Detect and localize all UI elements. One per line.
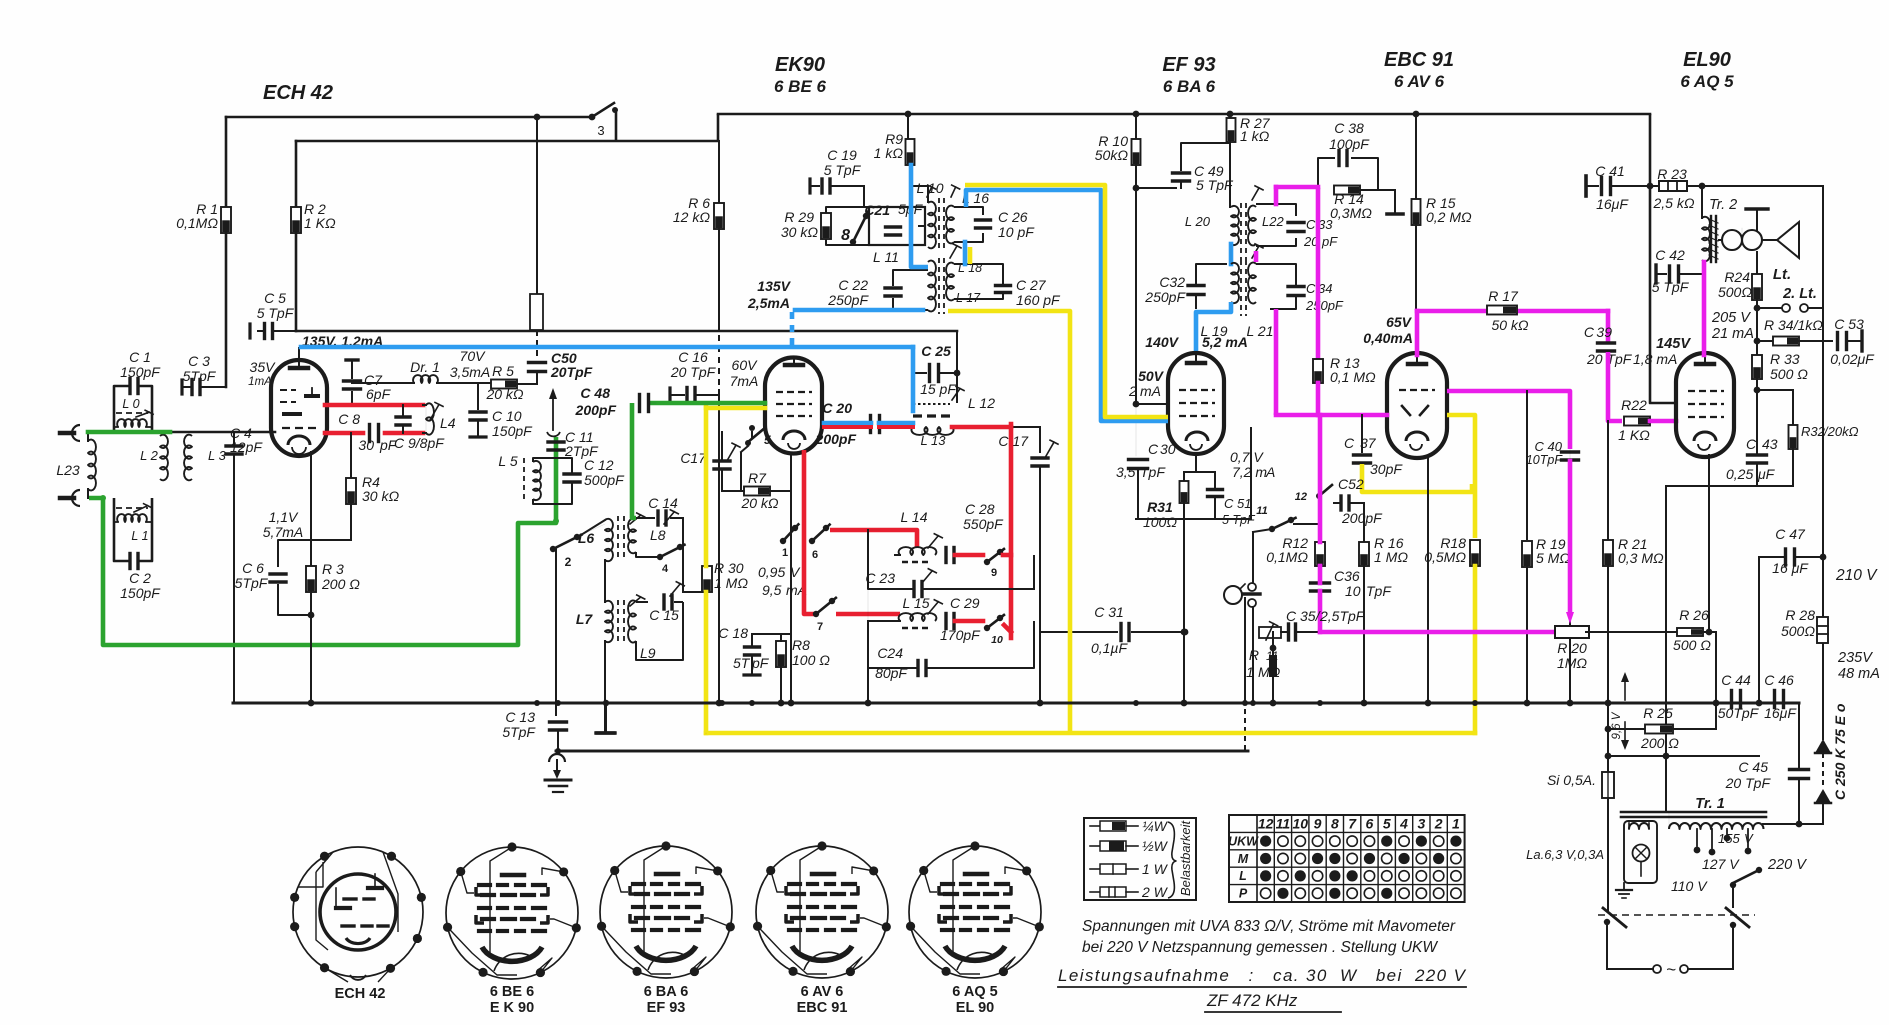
wire 0,7V line right (1250, 428, 1252, 519)
svg-text:20TpF: 20TpF (550, 364, 593, 380)
node junction at R9 branch (905, 111, 912, 118)
blue wire L16 to EF93 top path (966, 190, 1168, 421)
svg-text:L 1: L 1 (131, 529, 148, 543)
resistor R21 (1603, 540, 1613, 566)
wire C25 right vertical (956, 331, 958, 402)
dashed link to lower rail (1244, 709, 1246, 751)
svg-text:20 TpF: 20 TpF (670, 364, 717, 380)
svg-text:La.6,3 V,0,3A: La.6,3 V,0,3A (1526, 847, 1604, 862)
svg-text:L 12: L 12 (968, 395, 995, 411)
svg-text:0,40mA: 0,40mA (1363, 330, 1413, 346)
svg-text:C 40: C 40 (1535, 439, 1563, 454)
svg-text:R7: R7 (748, 470, 767, 486)
yellow wire R18 to bottom bus (1473, 566, 1478, 733)
wire C19 corner to box top (863, 186, 865, 207)
yellow wire L16/C26 to EF93 grid (968, 247, 973, 264)
svg-text:R: R (1249, 647, 1259, 663)
wire L14/L15 black bus stub (867, 530, 869, 555)
wire rail-to-fuse vertical (1605, 700, 1612, 707)
yellow wire EBC91 grid side to R18 (1447, 415, 1475, 538)
svg-text:Spannungen mit UVA 833 Ω/V: Spannungen mit UVA 833 Ω/V‚ Ströme mit M… (1082, 918, 1456, 935)
svg-text:200pF: 200pF (575, 402, 617, 418)
red wire C29 to switch10 (955, 619, 983, 624)
red wire C28 to switch9 (955, 553, 983, 558)
svg-text:6 AQ 5: 6 AQ 5 (1680, 72, 1734, 91)
svg-text:C 18: C 18 (718, 625, 748, 641)
svg-text:150pF: 150pF (492, 423, 533, 439)
socket diagram ECH42 (293, 847, 423, 977)
svg-text:150pF: 150pF (120, 364, 161, 380)
svg-text:9: 9 (1314, 816, 1322, 832)
svg-text:EF 93: EF 93 (1162, 54, 1215, 76)
resistor R8 (776, 641, 786, 667)
resistor R17 (1487, 306, 1517, 315)
wire C47 branch to rail (1758, 557, 1760, 703)
svg-text:R 28: R 28 (1785, 607, 1815, 623)
svg-text:C: C (1584, 324, 1595, 340)
svg-text:500 Ω: 500 Ω (1770, 366, 1808, 382)
svg-text:500pF: 500pF (584, 472, 625, 488)
svg-text:R 29: R 29 (784, 209, 814, 225)
svg-text:Tr. 2: Tr. 2 (1709, 197, 1737, 213)
svg-text:1 W: 1 W (1142, 861, 1169, 877)
wire R2 vertical from lower rail (295, 141, 298, 207)
resistor R16 (1359, 542, 1369, 566)
svg-text:12 kΩ: 12 kΩ (673, 209, 710, 225)
svg-text:ECH 42: ECH 42 (263, 82, 333, 104)
svg-text:C 48: C 48 (580, 385, 610, 401)
wire EF93 branch from rail (1135, 114, 1137, 140)
wire C8 node vertical (350, 433, 352, 443)
red wire cathode loop down (802, 450, 807, 530)
svg-text:R 23: R 23 (1657, 166, 1687, 182)
svg-text:L 5: L 5 (498, 453, 517, 469)
wire ground rail repaint (233, 702, 1799, 705)
red wire switch9 to red vertical (1003, 553, 1011, 558)
fuse Si 0,5A (1602, 772, 1614, 798)
red wire right vertical (1009, 424, 1014, 638)
wire red area bus to ground (867, 555, 869, 621)
svg-text:C 14: C 14 (648, 495, 678, 511)
svg-text:R 34/1kΩ: R 34/1kΩ (1764, 317, 1823, 333)
green wire antenna top (88, 430, 170, 435)
svg-text:bei 220 V Netzspannung geme: bei 220 V Netzspannung gemessen . Stellu… (1082, 939, 1438, 956)
wire R9 from rail (907, 114, 909, 140)
svg-text:1: 1 (1246, 664, 1254, 680)
wire top-right corner down to EL90 grid2 (1650, 114, 1676, 403)
red wire switch10 to vertical (1004, 625, 1011, 632)
wire Tr.1 winding ends (1668, 812, 1670, 829)
svg-text:C 26: C 26 (998, 209, 1028, 225)
capacitor C39 (1598, 341, 1615, 344)
tube EBC91 internals (1408, 362, 1426, 367)
wire corner to main top rail (717, 114, 720, 141)
tank L5/C12 wiring (533, 458, 572, 474)
svg-text:16 μF: 16 μF (1772, 560, 1809, 576)
svg-text:R32: R32 (1801, 424, 1826, 439)
svg-text:ECH 42: ECH 42 (335, 986, 386, 1002)
wire R16 branch (1363, 503, 1365, 543)
wire R26 corner to rail/R25 (1715, 632, 1717, 729)
box C21 with 5pF (869, 207, 925, 245)
blue wire 135V long line (301, 345, 913, 350)
svg-text:160 pF: 160 pF (1016, 292, 1061, 308)
svg-text:16μF: 16μF (1596, 196, 1629, 212)
svg-text:4: 4 (1399, 816, 1408, 832)
resistor R27 from rail (1227, 111, 1234, 118)
svg-text:9: 9 (991, 567, 997, 579)
red wire ECH42 cathode line via C8 (325, 431, 363, 436)
svg-text:1: 1 (782, 547, 788, 559)
svg-text:3: 3 (597, 123, 604, 138)
svg-text:5: 5 (1383, 816, 1391, 832)
socket diagram 6BE6 (446, 847, 578, 979)
svg-text:C 15: C 15 (649, 607, 679, 623)
magenta tank link L22-L21 (1254, 251, 1259, 262)
wire C17 to ground rail (1039, 468, 1041, 703)
svg-text:C52: C52 (1338, 476, 1364, 492)
svg-text:10: 10 (991, 634, 1003, 646)
wire L23 to green node (87, 433, 89, 441)
wire screen line to tube (1136, 403, 1168, 405)
resistor R5 (491, 380, 517, 389)
tank L0-C1 wiring (114, 386, 130, 432)
resistor R11 (1270, 645, 1277, 652)
switch 6 (809, 538, 815, 544)
svg-text:37: 37 (1360, 435, 1377, 451)
svg-text:μF: μF (1757, 466, 1776, 482)
svg-text:5,7mA: 5,7mA (263, 524, 303, 540)
svg-text:35V: 35V (250, 359, 277, 375)
blue wire down to EK90 anode line (911, 347, 916, 411)
capacitor C36 (1311, 581, 1330, 584)
svg-text:200 Ω: 200 Ω (1640, 735, 1679, 751)
wire lower rail repaint (556, 750, 1248, 753)
svg-text:50V: 50V (1138, 368, 1165, 384)
svg-text:L 10: L 10 (917, 180, 944, 196)
resistor R2 (291, 207, 301, 233)
wire L21/C34 tank lines (1256, 264, 1296, 287)
svg-text:½W: ½W (1142, 838, 1169, 854)
svg-text:L7: L7 (576, 611, 594, 627)
wire lower top rail (R2 across to corner x718) (296, 140, 718, 143)
wire R21 to ground rail (1607, 566, 1609, 703)
svg-text:C 9/8pF: C 9/8pF (394, 435, 445, 451)
magenta wire R13 vertical (1316, 190, 1321, 360)
svg-text:5,2 mA: 5,2 mA (1202, 334, 1248, 350)
svg-text:6 AQ 5: 6 AQ 5 (952, 984, 997, 1000)
node junction at R15 branch (1413, 111, 1420, 118)
legend box Belastbarkeit (1084, 818, 1196, 900)
svg-text:C: C (1306, 217, 1316, 232)
wire R4 to cathode node (350, 504, 352, 540)
magenta wire R22 to EL90 (1650, 419, 1676, 424)
tube EL90 envelope (1676, 353, 1734, 457)
wire L4/C9 joining (423, 404, 426, 406)
wire switch2 pole down to C13 (555, 549, 557, 715)
svg-text:1mA: 1mA (248, 376, 272, 388)
svg-text:150pF: 150pF (120, 585, 161, 601)
svg-text:4: 4 (662, 563, 669, 575)
svg-text:220 V: 220 V (1767, 857, 1807, 873)
resistor R29 (821, 213, 831, 239)
svg-text:/20kΩ: /20kΩ (1823, 424, 1859, 439)
svg-text:EL90: EL90 (1683, 49, 1731, 71)
wire lower rail (556, 750, 1248, 753)
capacitor C20 (869, 416, 872, 433)
switch 7 (813, 611, 819, 617)
magenta wire C39 to R22 line (1608, 352, 1622, 421)
yellow wire EK90 grid vertical (705, 733, 707, 734)
svg-text:1,8 mA: 1,8 mA (1633, 351, 1677, 367)
svg-text:L23: L23 (56, 462, 80, 478)
wire C13 to lower rail junction (557, 730, 559, 751)
svg-text:C 22: C 22 (838, 277, 868, 293)
green wire C48 to L8 (632, 403, 636, 518)
svg-text:C 17: C 17 (998, 433, 1029, 449)
svg-text:100pF: 100pF (1329, 136, 1370, 152)
svg-text:R22: R22 (1621, 397, 1647, 413)
wire 210V right vertical (1822, 186, 1824, 308)
svg-text:210 V: 210 V (1835, 567, 1878, 584)
resistor R31 and C51 cathode network (1195, 455, 1197, 472)
coil L1 with arrow (116, 507, 148, 509)
svg-text:6 BE 6: 6 BE 6 (490, 984, 534, 1000)
wire cathode to ground rail (1183, 519, 1185, 703)
wire switch5 loop to R7 (751, 431, 753, 438)
legend brace (1168, 822, 1176, 898)
red wire EK90 cathode along anode line (824, 425, 871, 429)
svg-text:C 35/: C 35/ (1286, 608, 1322, 624)
capacitor C37 (1361, 415, 1363, 452)
svg-text:0,1MΩ: 0,1MΩ (176, 215, 218, 231)
svg-text:L9: L9 (640, 645, 656, 661)
svg-text:ZF 472 KHz: ZF 472 KHz (1206, 991, 1298, 1010)
wire tube top to blue node (298, 348, 300, 360)
svg-text:3,5: 3,5 (1116, 464, 1136, 480)
svg-text:C17: C17 (680, 450, 707, 466)
svg-text:L4: L4 (440, 415, 456, 431)
svg-text:C 5: C 5 (264, 290, 286, 306)
capacitor C14 (636, 517, 654, 519)
node junction at switch 3 left contact (589, 114, 596, 121)
svg-text:L 14: L 14 (901, 509, 928, 525)
wire R1 vertical from rail (225, 117, 228, 207)
shield box on C50 branch (530, 294, 543, 330)
tube EK90 envelope (765, 358, 822, 454)
wire antenna terminal 1 (60, 431, 74, 436)
svg-text:1 KΩ: 1 KΩ (1618, 427, 1650, 443)
svg-text:C 42: C 42 (1655, 247, 1685, 263)
coil L23 (88, 440, 96, 491)
table switch positions (1229, 815, 1465, 902)
switch 4 (657, 554, 663, 560)
capacitor C40 (1562, 450, 1579, 453)
wire switch link dashes (1598, 914, 1755, 916)
svg-text:~: ~ (1666, 960, 1676, 979)
blue wire through C21 box to L11 (911, 209, 928, 267)
coil L12 dotted with arrow (913, 403, 950, 405)
svg-text:1MΩ: 1MΩ (1557, 655, 1587, 671)
svg-text:L 3: L 3 (208, 448, 227, 463)
svg-text:9,5: 9,5 (762, 582, 782, 598)
capacitor C17 right variable (1032, 456, 1048, 459)
svg-text:6 BA 6: 6 BA 6 (644, 984, 689, 1000)
tube EF93 envelope (1168, 353, 1224, 454)
resistor R20 potentiometer (1555, 626, 1589, 638)
tube EF93 internals (1187, 361, 1205, 366)
diode selenium 2 (1822, 753, 1824, 788)
svg-text:3,5mA: 3,5mA (450, 364, 490, 380)
svg-text:50 kΩ: 50 kΩ (1491, 317, 1528, 333)
svg-text:1 MΩ: 1 MΩ (1374, 549, 1408, 565)
wire C4 vertical to ground rail (233, 432, 235, 445)
wire R32 branch (1757, 389, 1793, 391)
svg-text:10: 10 (1292, 816, 1308, 832)
capacitor C30 (1135, 404, 1137, 456)
svg-text:200 Ω: 200 Ω (321, 576, 360, 592)
wire R22 node down to R21 (1607, 421, 1609, 540)
lamp ground stub (1623, 883, 1625, 890)
svg-text:170pF: 170pF (940, 627, 981, 643)
svg-text:500Ω: 500Ω (1781, 623, 1815, 639)
svg-text:9,6 V: 9,6 V (1611, 711, 1623, 739)
resistor R9 (906, 139, 915, 165)
svg-text:6 BA 6: 6 BA 6 (1163, 77, 1216, 96)
svg-text:6pF: 6pF (366, 386, 392, 402)
svg-text:250pF: 250pF (1144, 289, 1186, 305)
wire grid line L0/L2 to tube (black part) (152, 431, 275, 434)
svg-text:¼W: ¼W (1142, 818, 1169, 834)
svg-text:C 8: C 8 (338, 411, 360, 427)
svg-text:EF 93: EF 93 (647, 1000, 686, 1016)
resistor R3 (306, 566, 316, 592)
svg-text:39: 39 (1596, 324, 1612, 340)
svg-text:C 16: C 16 (678, 349, 708, 365)
magenta wire R13 to grid line (1316, 383, 1321, 415)
svg-text:7mA: 7mA (730, 373, 759, 389)
resistor R6 (714, 203, 724, 229)
svg-text:pF: pF (1321, 234, 1338, 249)
resistor R15 branch (1415, 114, 1417, 200)
blue wire EK90 anode segment (824, 421, 871, 426)
resistor R14 (1334, 186, 1360, 195)
wire rail end to C45 and winding (1798, 703, 1800, 769)
yellow wire C37 to R18 vertical (1362, 464, 1472, 492)
switch 8 (850, 239, 856, 245)
svg-text:5 TpF: 5 TpF (1652, 279, 1690, 295)
svg-text:0,25: 0,25 (1726, 466, 1753, 482)
magenta wire AVC bus to R20 (1320, 630, 1557, 635)
socket diagram 6BA6 (600, 846, 732, 978)
svg-text:R24: R24 (1724, 269, 1750, 285)
svg-text:C 3: C 3 (188, 353, 210, 369)
wire EBC91 cathode down (1427, 456, 1429, 703)
svg-text:C 19: C 19 (827, 147, 857, 163)
tube EBC91 envelope (1387, 353, 1447, 458)
svg-text:EL 90: EL 90 (956, 1000, 994, 1016)
wire C23 loop (868, 555, 913, 589)
capacitor C7 (346, 358, 358, 361)
svg-text:L 0: L 0 (122, 397, 139, 411)
tank L1-C2 wiring (114, 498, 130, 561)
coil L19/L21 IF transformer (1231, 263, 1239, 303)
svg-text:10 pF: 10 pF (998, 224, 1035, 240)
capacitor C15 trimmer (662, 595, 665, 609)
svg-text:R 3: R 3 (322, 561, 344, 577)
resistor R4 (350, 443, 352, 479)
switch 5 (749, 425, 755, 431)
svg-text:C: C (1306, 281, 1316, 296)
svg-text:C21: C21 (864, 202, 890, 218)
wire C21 box to L10 (919, 225, 923, 227)
magenta wire from C40 down to R20 with arrow (1569, 449, 1571, 617)
svg-text:2,5mA: 2,5mA (747, 295, 790, 311)
socket diagram 6AV6 (756, 846, 888, 978)
blue wire L16 bottom to L18 (963, 242, 968, 264)
switch 3 (592, 103, 614, 117)
svg-text:2 W: 2 W (1141, 884, 1169, 900)
capacitor C49 (1136, 187, 1176, 189)
svg-text:5: 5 (764, 433, 771, 447)
wire R1 to C3 node (225, 233, 228, 387)
capacitor C8 (368, 425, 371, 442)
capacitor C51 (1214, 472, 1216, 487)
node junction at EF93 branch (1133, 111, 1140, 118)
tube ECH42 internals (290, 366, 308, 371)
wire C43 bottom line (1666, 485, 1793, 487)
svg-text:500 Ω: 500 Ω (1673, 637, 1711, 653)
wire L13 to C17 corner (1011, 426, 1040, 428)
svg-text:L 21: L 21 (1247, 323, 1274, 339)
capacitor C17 left variable (714, 459, 730, 462)
svg-text:C 10: C 10 (492, 408, 522, 424)
svg-text:135V: 135V (757, 278, 791, 294)
coil L8 (628, 519, 636, 554)
svg-text:0,1µF: 0,1µF (1091, 640, 1129, 656)
capacitor C9 (396, 415, 410, 418)
capacitor C11 (548, 440, 564, 443)
svg-text:L 20: L 20 (1185, 214, 1211, 229)
wire L9 loops to C15 and bus (636, 601, 648, 603)
yellow wire left vertical at R30 (704, 407, 709, 566)
svg-text:L8: L8 (650, 527, 666, 543)
svg-text:1: 1 (1452, 816, 1460, 832)
svg-text:30 kΩ: 30 kΩ (362, 488, 399, 504)
svg-text:7: 7 (1348, 816, 1357, 832)
wire cathode box bottom (1136, 518, 1251, 520)
node dots on ground rail (308, 700, 314, 706)
magenta wire L21 tank down (1274, 309, 1279, 415)
capacitor C27 loop (954, 264, 1003, 285)
wire L8 bottom loop to switch4 (636, 552, 660, 557)
switch 1 (780, 538, 786, 544)
svg-text:0,2 MΩ: 0,2 MΩ (1426, 209, 1472, 225)
svg-text:C32: C32 (1159, 274, 1185, 290)
svg-text:10TpF: 10TpF (1526, 453, 1563, 467)
svg-text:L 2: L 2 (140, 448, 159, 463)
svg-text:C 1: C 1 (129, 349, 151, 365)
resistor R1 (221, 207, 231, 233)
green wire dot at C11 (553, 518, 559, 524)
wire R23 line junctions (1647, 183, 1654, 190)
svg-text:11: 11 (1256, 505, 1267, 517)
wire 135V line from C5/R2 to C25 box (296, 330, 957, 333)
svg-text:12: 12 (1295, 491, 1307, 503)
svg-text:6 AV 6: 6 AV 6 (1394, 72, 1445, 91)
svg-text:R 33: R 33 (1770, 351, 1800, 367)
svg-text:mA: mA (1140, 383, 1161, 399)
